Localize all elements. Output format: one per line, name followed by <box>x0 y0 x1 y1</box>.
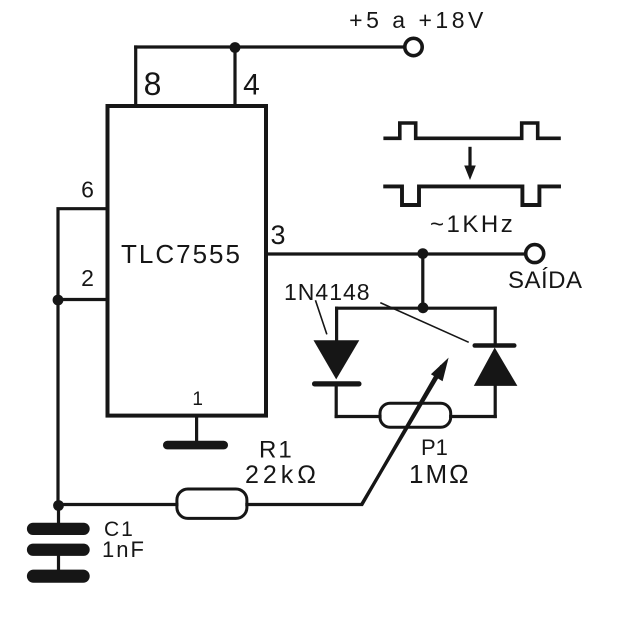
svg-text:3: 3 <box>270 220 285 250</box>
waveform bottom trace <box>385 186 559 205</box>
node diode rail junction <box>418 302 429 313</box>
capacitor C1 plate 3 <box>27 570 90 583</box>
diode D2 1N4148 (right, pointing up) <box>473 343 517 348</box>
svg-text:6: 6 <box>81 177 94 203</box>
wire pin 2 <box>58 298 108 301</box>
potentiometer P1 body <box>380 403 451 427</box>
wire output drop <box>421 254 424 308</box>
svg-text:4: 4 <box>243 69 260 102</box>
wire pin 4 drop <box>233 47 236 106</box>
resistor R1 body <box>177 489 247 518</box>
svg-text:P1: P1 <box>421 435 448 460</box>
svg-text:TLC7555: TLC7555 <box>121 239 242 269</box>
svg-text:1: 1 <box>192 389 203 410</box>
capacitor C1 plate 1 <box>27 523 90 535</box>
wire pin 1 stub <box>195 416 198 441</box>
svg-text:2: 2 <box>81 265 94 291</box>
svg-text:22kΩ: 22kΩ <box>245 461 320 489</box>
wire C1 to R1 <box>59 503 177 506</box>
node top junction <box>230 42 241 53</box>
svg-text:SAÍDA: SAÍDA <box>508 267 583 294</box>
wire pin 8 drop <box>134 47 137 106</box>
node C1 junction <box>53 500 64 511</box>
svg-text:1nF: 1nF <box>102 537 146 562</box>
wire top rail <box>136 45 405 48</box>
wire R1 to bend <box>247 367 441 505</box>
ground <box>163 441 228 450</box>
wire diode top rail <box>337 307 496 310</box>
wire pin 6 <box>58 209 108 300</box>
svg-text:+5 a +18V: +5 a +18V <box>349 7 487 33</box>
P1 wiper arrow <box>362 378 437 504</box>
terminal SAIDA <box>526 245 544 263</box>
wire D2 bottom drop <box>494 386 497 417</box>
svg-text:1MΩ: 1MΩ <box>409 459 471 489</box>
svg-text:R1: R1 <box>259 437 294 464</box>
terminal V+ <box>405 38 422 55</box>
wire C1 stub top <box>57 506 60 524</box>
wire pin 3 output <box>266 252 525 255</box>
wire diode bottom rail left <box>336 415 380 418</box>
leader line to D1 <box>316 301 327 334</box>
waveform arrow <box>468 148 471 168</box>
svg-text:~1KHz: ~1KHz <box>430 211 515 238</box>
wire left vertical <box>56 300 59 506</box>
node output junction <box>417 248 428 259</box>
svg-text:1N4148: 1N4148 <box>284 279 371 305</box>
wire D2 top drop <box>494 308 497 343</box>
svg-text:8: 8 <box>144 66 162 102</box>
waveform top trace <box>385 123 559 138</box>
node pin2 junction <box>53 295 64 306</box>
wire diode bottom rail right <box>451 415 496 418</box>
capacitor C1 plate 2 <box>27 544 90 556</box>
wire C1 stub bottom <box>57 556 60 571</box>
diode D1 1N4148 (left, pointing down) <box>314 340 360 379</box>
wire D1 bottom drop <box>335 386 338 417</box>
leader line to D2 <box>381 303 468 342</box>
op-amp U1 TLC7555 body <box>108 106 267 416</box>
wire D1 top drop <box>335 308 338 340</box>
